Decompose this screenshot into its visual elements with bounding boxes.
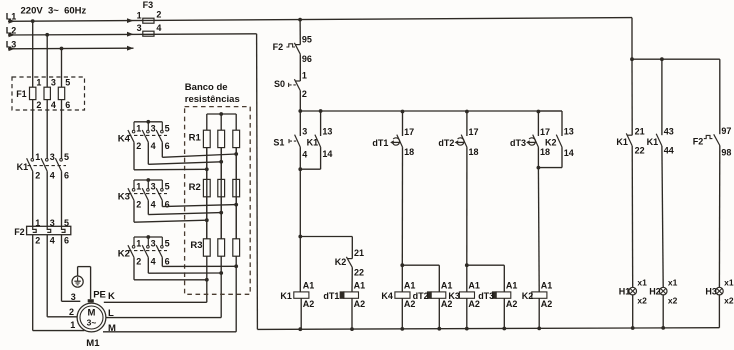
svg-text:2: 2	[35, 171, 40, 181]
svg-text:dT3: dT3	[510, 138, 526, 148]
resistor R1 phase2	[218, 130, 225, 147]
K4 contact 1-2	[128, 122, 141, 151]
junction bottom rail x632	[631, 326, 635, 330]
K2 contact 5-6	[156, 237, 169, 266]
wire K2-4 to tap	[148, 257, 221, 273]
resistor R1 phase3	[233, 130, 240, 147]
wire branch to dT2 coil	[402, 265, 439, 292]
svg-text:6: 6	[64, 236, 69, 246]
svg-text:1: 1	[36, 78, 41, 88]
contactor K1 label	[17, 162, 29, 172]
junction on L2	[45, 33, 49, 37]
svg-text:1: 1	[136, 239, 141, 249]
wire F2 97-98 upper	[719, 59, 721, 134]
wire H2 to rail	[662, 295, 664, 328]
contactor K1 main contact 1-2	[27, 152, 41, 180]
junction K3 bar	[146, 178, 150, 182]
svg-text:3: 3	[71, 292, 76, 302]
svg-text:x1: x1	[724, 277, 734, 287]
overload relay F2 box	[27, 226, 71, 234]
wire K2 coil to rail	[538, 298, 540, 328]
wire control rail	[300, 110, 562, 112]
svg-text:3: 3	[302, 126, 307, 136]
svg-text:dT1: dT1	[372, 138, 388, 148]
svg-text:H2: H2	[649, 287, 661, 297]
wire F2 to motor terminal 3	[62, 235, 81, 302]
motor rotor terminal labels K L M	[108, 291, 116, 334]
wire F2 96 to S0	[299, 54, 301, 81]
wire S0 to rail	[299, 91, 301, 111]
svg-text:K1: K1	[307, 137, 319, 147]
pushbutton S0 (NC)	[274, 71, 307, 100]
supply rating label	[21, 5, 87, 16]
svg-text:K2: K2	[118, 248, 130, 259]
svg-text:22: 22	[635, 146, 645, 156]
K2 linkage dashed	[128, 250, 167, 252]
svg-text:21: 21	[354, 248, 364, 258]
coil K4	[381, 281, 415, 309]
wire bottom control rail	[257, 328, 719, 330]
wire K2 22 to dT1 coil	[351, 267, 353, 292]
resistor R2 phase3	[233, 179, 240, 196]
K3 contact 1-2	[128, 180, 141, 209]
junction dT3 K2 rejoin	[537, 166, 541, 170]
junction S1 K1 rejoin	[298, 167, 302, 171]
wire F1 to K1 (phase2)	[46, 100, 48, 159]
svg-text:A1: A1	[468, 281, 480, 291]
wire resistor chain phase1	[206, 114, 208, 239]
resistor R1 label	[189, 133, 202, 144]
svg-text:A1: A1	[404, 281, 416, 291]
svg-text:5: 5	[65, 78, 70, 88]
svg-text:4: 4	[151, 141, 156, 151]
svg-text:A1: A1	[303, 281, 315, 291]
junction lamp rail left	[630, 57, 634, 61]
svg-text:22: 22	[354, 267, 364, 277]
node L2 label	[6, 25, 17, 35]
junction bottom rail x663	[661, 326, 665, 330]
resistor bank dashed box	[185, 107, 251, 295]
wire F2 to motor terminal 1	[33, 235, 85, 331]
resistor R3 phase2	[218, 239, 225, 256]
fuse F3 element 1-2	[137, 10, 162, 24]
wire L1 to lamp rail	[631, 18, 633, 60]
resistor R1 phase1	[203, 130, 210, 147]
wire dT1 coil to rail	[351, 298, 353, 329]
fuse F3 element 3-4	[137, 23, 162, 36]
overload relay F2 label	[14, 227, 25, 237]
svg-text:2: 2	[69, 307, 74, 317]
junction bottom rail x466	[465, 327, 469, 331]
coil dT1 (timer)	[323, 281, 365, 309]
resistor bank title line2	[185, 94, 240, 105]
contactor K1 main contact 5-6	[55, 152, 69, 180]
motor 3~ text	[87, 318, 97, 328]
K2 contact 1-2	[128, 237, 141, 266]
resistor R2 label	[189, 182, 201, 193]
svg-text:H3: H3	[705, 287, 717, 297]
wire K3-4 to tap	[148, 200, 221, 214]
wire K3 coil to rail	[466, 298, 468, 329]
junction star point	[219, 112, 223, 116]
K3 contact 5-6	[156, 180, 169, 209]
wire K1 21-22 to H1	[631, 146, 634, 287]
svg-text:R2: R2	[189, 182, 201, 193]
pushbutton S1 (NO)	[273, 111, 307, 160]
svg-text:K4: K4	[381, 291, 393, 301]
svg-text:18: 18	[404, 147, 414, 157]
svg-text:K1: K1	[647, 137, 659, 147]
wire K3-6 to tap	[162, 200, 236, 206]
wire dT2 coil to rail	[438, 298, 440, 329]
resistor R3 phase1	[203, 239, 210, 256]
fuse F1 element 3-4	[44, 78, 56, 111]
junction K4 bar	[146, 120, 150, 124]
svg-text:S0: S0	[274, 79, 285, 89]
svg-text:F3: F3	[143, 0, 154, 10]
junction tap R2R3 phase2	[219, 211, 223, 215]
junction tap R2R3 phase1	[205, 218, 209, 222]
svg-text:1: 1	[136, 123, 141, 133]
wire H3 to rail	[718, 295, 720, 328]
wire K4-2 to tap	[134, 142, 207, 170]
motor M text	[88, 307, 96, 318]
wire K1 coil to rail	[300, 298, 302, 329]
svg-text:A2: A2	[541, 299, 553, 309]
wire K1 43-44 upper	[661, 59, 663, 135]
junction K2 bar	[146, 235, 150, 239]
PE label	[93, 289, 106, 300]
svg-text:K2: K2	[522, 291, 534, 301]
F2 heater phase1	[33, 226, 37, 232]
wire resistor chain phase2	[220, 114, 222, 239]
wire rotor M	[103, 256, 236, 332]
junction rail at dT3	[537, 110, 541, 114]
wire dT3 coil to rail	[503, 298, 505, 328]
svg-text:18: 18	[469, 147, 479, 157]
svg-text:14: 14	[322, 149, 332, 159]
svg-text:A1: A1	[506, 281, 518, 291]
wire branch to K2 21-22	[300, 237, 352, 259]
svg-text:Banco de: Banco de	[185, 82, 228, 93]
fuse F1 element 5-6	[58, 78, 70, 111]
svg-text:dT3: dT3	[478, 291, 494, 301]
svg-text:21: 21	[635, 127, 645, 137]
svg-text:L3: L3	[6, 39, 17, 49]
timer contact dT1 17-18	[372, 112, 414, 158]
junction branch K2 21-22	[298, 235, 302, 239]
svg-text:2: 2	[156, 10, 161, 20]
svg-text:H1: H1	[619, 287, 631, 297]
wire S1 lower	[299, 147, 301, 169]
wire to K4 coil	[401, 265, 403, 292]
wire lamp rail	[632, 58, 720, 60]
wire K4 coil to rail	[401, 298, 403, 329]
wire F2 98 to H3	[718, 146, 720, 288]
svg-text:13: 13	[564, 126, 574, 136]
svg-text:L2: L2	[6, 25, 17, 35]
svg-text:4: 4	[151, 199, 156, 209]
svg-text:5: 5	[64, 152, 69, 162]
svg-text:2: 2	[35, 236, 40, 246]
wire K4-6 to tap	[162, 142, 236, 157]
svg-text:x1: x1	[668, 277, 678, 287]
svg-text:3: 3	[137, 23, 142, 33]
svg-text:3: 3	[51, 78, 56, 88]
wire to K1 coil	[299, 237, 301, 292]
svg-text:17: 17	[404, 127, 414, 137]
wire L1 phase line	[8, 18, 632, 24]
timer contact dT2 17-18	[438, 112, 478, 158]
wire R2-R3 gap	[207, 197, 236, 239]
junction bottom rail x402	[400, 327, 404, 331]
svg-text:F2: F2	[273, 42, 284, 52]
contactor K2 label	[118, 248, 130, 259]
resistor bank title line1	[185, 82, 228, 93]
wire K2 13-14 bottom	[538, 147, 562, 168]
svg-text:4: 4	[302, 150, 307, 160]
wire K2-2 to tap	[134, 257, 207, 279]
wire PE to motor	[78, 267, 91, 300]
wire dT3 to K2 coil	[537, 147, 540, 292]
K3 common bar	[134, 179, 162, 181]
wire K1 to F2 (phase2)	[47, 171, 55, 228]
svg-text:4: 4	[50, 171, 55, 181]
svg-text:A2: A2	[506, 299, 518, 309]
wire H1 to rail	[632, 295, 634, 328]
auxiliary contact K1 43-44	[647, 127, 674, 156]
wire L2 phase line	[8, 32, 257, 38]
fuse F1 dashed box	[12, 77, 85, 110]
contactor K3 label	[118, 192, 130, 203]
svg-text:A2: A2	[303, 299, 315, 309]
svg-text:3: 3	[50, 152, 55, 162]
wire to K3 coil	[466, 265, 468, 292]
wire K3-2 to tap	[134, 200, 207, 222]
junction tap R1R2 phase3	[234, 152, 238, 156]
junction rail at dT2	[465, 110, 469, 114]
coil K3	[448, 281, 480, 309]
auxiliary contact K2 21-22	[335, 248, 364, 277]
junction control rail left	[298, 109, 302, 113]
svg-text:F2: F2	[693, 137, 704, 147]
svg-text:4: 4	[51, 100, 56, 110]
overload contact F2 95-96	[273, 34, 312, 63]
svg-text:K: K	[108, 291, 115, 302]
resistor R3 label	[190, 240, 202, 251]
svg-text:98: 98	[721, 147, 731, 157]
svg-text:6: 6	[64, 171, 69, 181]
svg-text:K1: K1	[17, 162, 29, 172]
K1 linkage dashed	[28, 165, 67, 167]
svg-text:K1: K1	[616, 137, 628, 147]
K4 linkage dashed	[128, 134, 167, 136]
junction lamp rail mid	[660, 57, 664, 61]
svg-text:4: 4	[151, 256, 156, 266]
svg-text:6: 6	[165, 256, 170, 266]
svg-text:1: 1	[70, 320, 75, 330]
contactor K4 label	[118, 133, 131, 144]
K4 common bar	[134, 121, 162, 123]
svg-text:43: 43	[664, 127, 674, 137]
svg-text:A1: A1	[441, 281, 453, 291]
F2 lower terminal labels	[35, 236, 69, 246]
wire branch to dT3 coil	[467, 265, 505, 292]
wire K1 to F2 (phase1)	[33, 171, 41, 228]
svg-text:3: 3	[151, 123, 156, 133]
svg-text:96: 96	[302, 54, 312, 64]
wire dT1 18 down	[401, 147, 403, 265]
K2 contact 3-4	[142, 237, 155, 266]
svg-text:2: 2	[36, 100, 41, 110]
ground PE symbol	[72, 276, 83, 287]
junction K3-dT3 branch	[465, 263, 469, 267]
F2 heater phase3	[62, 226, 66, 232]
PE terminal bar	[88, 299, 94, 302]
wire K1 13-14 lower	[300, 147, 320, 169]
svg-text:x2: x2	[724, 296, 734, 306]
K3 linkage dashed	[128, 193, 167, 195]
svg-text:220V 3~ 60Hz: 220V 3~ 60Hz	[21, 5, 87, 16]
svg-text:5: 5	[165, 239, 170, 249]
wire L3 phase line	[8, 46, 134, 51]
motor designator M1	[86, 338, 100, 349]
coil dT3 (timer)	[478, 281, 517, 309]
wire K1 43-44 to H2	[662, 146, 663, 287]
junction rail at K1 aux	[319, 109, 323, 113]
wire K2-6 to tap	[162, 257, 236, 266]
svg-text:A1: A1	[541, 281, 553, 291]
svg-text:L1: L1	[6, 12, 17, 22]
junction tap rotor phase2	[219, 271, 223, 275]
junction bottom rail x504	[502, 327, 506, 331]
motor M1 circle	[77, 303, 106, 332]
wire F1 to K1 (phase3)	[61, 100, 63, 159]
svg-text:13: 13	[322, 126, 332, 136]
resistor R2 phase2	[218, 179, 225, 196]
lamp H1	[619, 277, 647, 305]
overload contact F2 97-98	[693, 126, 732, 157]
svg-text:x1: x1	[637, 277, 647, 287]
junction tap rotor phase3	[234, 264, 238, 268]
svg-text:3~: 3~	[87, 318, 97, 328]
svg-text:A2: A2	[354, 299, 366, 309]
wire L1 tap to F2 95	[299, 20, 301, 45]
junction tap R1R2 phase2	[219, 160, 223, 164]
junction bottom rail x352	[350, 327, 354, 331]
wire rotor K	[104, 256, 207, 302]
junction tap rotor phase1	[205, 278, 209, 282]
wire rotor L	[106, 256, 221, 317]
svg-text:M1: M1	[86, 338, 100, 349]
svg-text:R1: R1	[189, 133, 202, 144]
svg-text:1: 1	[35, 152, 40, 162]
svg-text:x2: x2	[668, 296, 678, 306]
motor terminal labels 1 2 3	[69, 292, 76, 330]
junction tap R2R3 phase3	[234, 203, 238, 207]
svg-text:2: 2	[302, 89, 307, 99]
svg-text:S1: S1	[273, 137, 284, 147]
wire L1 drop	[32, 21, 34, 87]
star point bar	[207, 113, 236, 115]
junction bottom rail x539	[537, 327, 541, 331]
junction on L3	[60, 47, 64, 51]
wire K1 21-22 upper	[631, 59, 633, 135]
coil K2	[522, 281, 553, 309]
svg-text:14: 14	[564, 148, 574, 158]
svg-text:R3: R3	[190, 240, 202, 251]
svg-text:K3: K3	[448, 291, 460, 301]
junction bottom rail x439	[437, 327, 441, 331]
wire resistor chain phase3	[235, 114, 237, 239]
svg-text:6: 6	[165, 199, 170, 209]
wire K4-4 to tap	[148, 142, 221, 164]
K4 contact 5-6	[156, 122, 169, 151]
junction on L1	[31, 19, 35, 23]
svg-text:44: 44	[664, 146, 674, 156]
resistor R3 phase3	[233, 239, 240, 256]
svg-text:F2: F2	[14, 227, 25, 237]
wire F1 to K1 (phase1)	[32, 100, 34, 159]
timer contact dT3 17-18	[510, 112, 550, 158]
svg-text:x2: x2	[637, 296, 647, 306]
fuse F1 label	[16, 89, 27, 99]
junction bottom rail x300	[298, 327, 302, 331]
fuse F3 label	[143, 0, 154, 10]
svg-text:6: 6	[165, 141, 170, 151]
lamp H3	[705, 277, 733, 305]
svg-text:95: 95	[302, 34, 312, 44]
auxiliary contact K1 21-22	[616, 127, 644, 156]
resistor R2 phase1	[203, 179, 210, 196]
svg-text:6: 6	[65, 100, 70, 110]
svg-text:97: 97	[721, 126, 731, 136]
svg-text:1: 1	[302, 71, 307, 81]
coil dT2 (timer)	[413, 281, 453, 309]
K2 common bar	[134, 236, 162, 238]
svg-text:A1: A1	[354, 281, 366, 291]
wire K2 13-14 top	[538, 111, 562, 136]
node L3 label	[6, 39, 17, 49]
svg-text:PE: PE	[93, 289, 106, 300]
svg-text:2: 2	[136, 199, 141, 209]
svg-text:K2: K2	[545, 137, 557, 147]
svg-text:3: 3	[151, 182, 156, 192]
svg-text:17: 17	[540, 127, 550, 137]
wire F2 to motor terminal 2	[47, 235, 77, 317]
svg-text:dT1: dT1	[323, 291, 339, 301]
svg-text:17: 17	[469, 127, 479, 137]
junction K4-dT2 branch	[400, 263, 404, 267]
lamp H2	[649, 277, 677, 305]
svg-text:dT2: dT2	[413, 291, 429, 301]
svg-text:2: 2	[136, 141, 141, 151]
svg-text:2: 2	[136, 256, 141, 266]
svg-text:4: 4	[50, 236, 55, 246]
junction L1 control tap	[298, 18, 302, 22]
svg-text:1: 1	[136, 182, 141, 192]
junction tap R1R2 phase1	[205, 167, 209, 171]
contactor K1 main contact 3-4	[41, 152, 55, 180]
wire K1 to F2 (phase3)	[62, 171, 70, 228]
wire L2 drop	[46, 35, 48, 87]
K3 contact 3-4	[142, 180, 155, 209]
svg-text:resistências: resistências	[185, 94, 240, 105]
svg-text:5: 5	[165, 123, 170, 133]
wire L2 control drop	[256, 34, 259, 330]
auxiliary contact K2 13-14	[545, 126, 574, 158]
node L1 label	[6, 12, 17, 22]
